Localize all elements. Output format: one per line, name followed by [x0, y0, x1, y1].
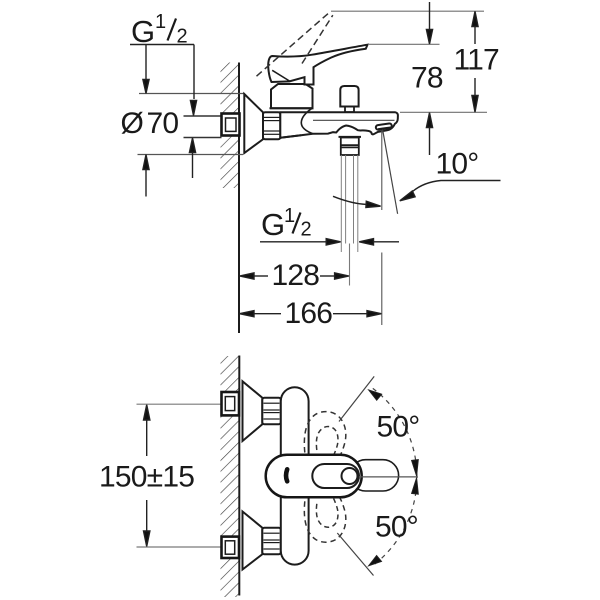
- square wall fitting (top view): [222, 114, 240, 136]
- body interior line: [313, 119, 395, 121]
- cartridge cover: [271, 84, 313, 108]
- shower outlet nipple: [341, 138, 359, 156]
- arc end arrows at centre line: [412, 460, 419, 476]
- svg-text:G: G: [261, 207, 285, 242]
- handle pivot circle: [342, 468, 358, 484]
- dashed swing petal lower inner: [316, 499, 338, 528]
- dashed swing petal upper outer: [304, 412, 345, 456]
- wall line (bottom view): [238, 356, 240, 596]
- 50 deg slanted line lower: [337, 533, 373, 576]
- svg-text:150±15: 150±15: [99, 460, 194, 493]
- svg-text:10°: 10°: [436, 148, 479, 181]
- dashed swing petal upper inner: [316, 427, 338, 456]
- extent line from body deck: [400, 111, 487, 113]
- hex nut lower (plan): [262, 528, 281, 555]
- diverter knob stem: [345, 107, 354, 113]
- stream vertical reference line: [381, 131, 383, 210]
- aerator capsule: [376, 123, 392, 130]
- dimension 128: [240, 273, 350, 279]
- Ø70 extent line top: [139, 93, 244, 95]
- svg-text:78: 78: [411, 61, 443, 94]
- handle base (plan): [266, 455, 362, 498]
- faucet body (top view): [280, 112, 398, 138]
- extent line from solid lever tip: [368, 43, 440, 45]
- G1/2 leader (bottom): [260, 239, 399, 245]
- raised lever (dashed) lower edge: [302, 15, 333, 63]
- handle grip extension (plan): [350, 460, 399, 491]
- escutcheon upper (plan): [243, 381, 263, 441]
- wall hatching (bottom view): [221, 356, 240, 597]
- stream slanted line (10 deg): [383, 130, 398, 214]
- diverter knob: [340, 86, 358, 107]
- lever blob crease: [272, 70, 289, 81]
- svg-text:128: 128: [272, 259, 320, 292]
- svg-text:117: 117: [454, 43, 500, 76]
- dashed swing petal lower outer: [304, 498, 345, 542]
- hex union nut (top view): [263, 112, 280, 139]
- 50 deg arc arrow upper: [369, 390, 382, 400]
- handle inner stadium (plan): [312, 464, 359, 488]
- escutcheon lower (plan): [243, 512, 263, 570]
- svg-text:1: 1: [284, 205, 295, 227]
- svg-text:50°: 50°: [377, 411, 420, 444]
- dimension 150±15: [144, 405, 150, 547]
- shower outlet flange: [339, 136, 362, 138]
- dimension Ø70 arrows: [143, 45, 149, 197]
- raised lever (dashed) upper edge: [257, 12, 330, 76]
- dimension 166: [240, 311, 382, 317]
- lever handle (solid): [268, 45, 367, 85]
- square wall fitting upper (plan): [222, 392, 240, 415]
- svg-text:166: 166: [285, 297, 333, 330]
- leader line lower (150 dim): [137, 546, 222, 548]
- 10 deg leader + arrow: [400, 181, 501, 201]
- body bottom edge left: [280, 135, 301, 138]
- square wall fitting lower (plan): [222, 537, 240, 558]
- shower pipe projection lines: [341, 155, 358, 252]
- 10 deg arc left + arrow: [333, 196, 381, 207]
- 50 deg arc arrow lower: [369, 556, 382, 566]
- cover bottom edge: [270, 107, 314, 109]
- svg-text:70: 70: [147, 107, 179, 140]
- hex nut upper (plan): [262, 398, 281, 425]
- centre line (plan): [359, 476, 418, 478]
- G1/2 leader (top): [130, 45, 197, 179]
- dimension 117: [472, 11, 478, 112]
- svg-text:1: 1: [155, 11, 166, 33]
- svg-text:2: 2: [301, 219, 312, 241]
- svg-text:G: G: [131, 14, 155, 49]
- body underside accent curve: [301, 108, 313, 133]
- wall line (top view): [238, 63, 240, 334]
- extent line from raised lever tip: [331, 10, 484, 12]
- supply pipe stub (top view): [184, 115, 222, 117]
- dimension 78: [426, 2, 432, 155]
- 50 deg slanted line upper: [339, 376, 374, 421]
- svg-text:Ø: Ø: [121, 107, 144, 140]
- shower pipe centre line: [349, 244, 351, 286]
- swing arc (dashed): [373, 388, 417, 565]
- escutcheon cone (top view): [244, 94, 263, 153]
- faucet body (plan): [281, 387, 309, 564]
- svg-text:50°: 50°: [375, 511, 418, 544]
- wall hatching (top view): [221, 63, 240, 189]
- leader line upper (150 dim): [137, 403, 222, 405]
- handle slot mark: [286, 469, 287, 481]
- Ø70 extent line bottom: [138, 154, 244, 156]
